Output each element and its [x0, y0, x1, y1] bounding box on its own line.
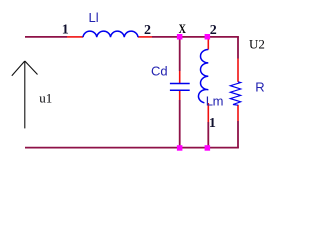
svg-text:U2: U2 [249, 36, 265, 51]
svg-text:u1: u1 [39, 90, 52, 105]
svg-text:2: 2 [210, 23, 217, 38]
svg-text:1: 1 [62, 23, 69, 38]
svg-text:2: 2 [144, 23, 151, 38]
svg-text:1: 1 [209, 116, 216, 131]
svg-text:Ll: Ll [89, 10, 99, 25]
svg-text:X: X [179, 22, 187, 36]
svg-text:Cd: Cd [151, 63, 168, 78]
svg-text:R: R [255, 79, 264, 94]
svg-text:Lm: Lm [206, 94, 223, 109]
